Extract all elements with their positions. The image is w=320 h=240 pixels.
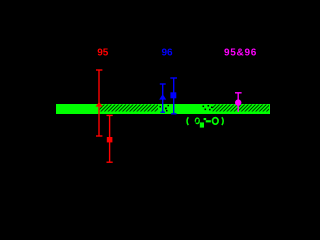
= sign pieces <box>204 118 207 120</box>
magenta error bar (line, cap, circle marker) <box>235 93 242 112</box>
green band (allowed region bar) <box>56 104 270 114</box>
svg-text:95&96: 95&96 <box>224 48 257 59</box>
svg-text:96: 96 <box>162 48 174 59</box>
subscript block <box>200 122 204 127</box>
hatched exclusion region 1 <box>100 105 159 112</box>
red error bar 2 (line, caps, square marker) <box>107 115 113 162</box>
blue error bar 2 (line, cap, square marker) <box>170 78 177 114</box>
sparse hatch dots before region 2 <box>203 105 213 110</box>
0 <box>213 118 219 125</box>
blue error bar 1 (line, cap, triangle marker) <box>160 84 166 112</box>
( <box>187 117 188 125</box>
theta ring <box>195 118 199 123</box>
green annotation "( theta_x = 0 )" <box>187 117 223 127</box>
) <box>222 117 223 125</box>
red error bar 1 (line, caps, triangle marker) <box>96 70 102 136</box>
svg-text:95: 95 <box>97 48 109 59</box>
sparse hatch dots after region 1 <box>160 105 170 112</box>
hatched exclusion region 2 <box>213 105 270 112</box>
